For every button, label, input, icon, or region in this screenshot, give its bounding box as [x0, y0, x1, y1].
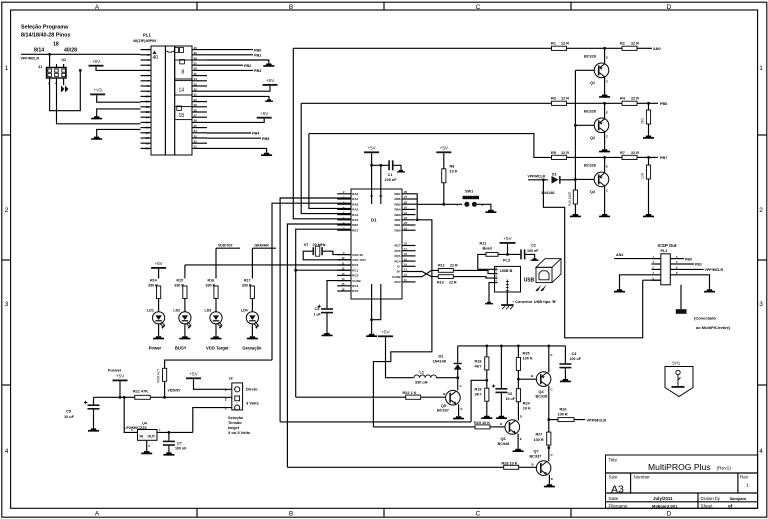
- svg-text:26: 26: [194, 119, 198, 123]
- wire Q5 base from R22: [420, 396, 445, 398]
- svg-text:LD3: LD3: [205, 309, 212, 313]
- svg-text:VDD Target: VDD Target: [206, 346, 229, 351]
- ic D1 right pin 22 (RB1) stub: [402, 224, 416, 226]
- ground LD1: [153, 336, 164, 339]
- supply flag +5V above D1: [364, 146, 379, 154]
- diode D1 1N4148: [552, 176, 561, 184]
- wire MCU VSS pins to ground: [371, 299, 373, 320]
- svg-text:+5V: +5V: [440, 146, 449, 151]
- junction dot R20 bottom: [163, 396, 166, 399]
- transistor Q3 (PNP): [604, 157, 606, 172]
- ground R15: [570, 214, 581, 217]
- svg-text:AN4: AN4: [616, 253, 623, 257]
- connector PL1 left pin 16 stub: [141, 127, 152, 129]
- svg-text:3 Volts: 3 Volts: [246, 401, 260, 406]
- wire PL2 pin4 to PB1: [680, 263, 695, 265]
- junction dot J1 return on +5V wire: [79, 69, 82, 72]
- svg-text:VPP/MCLR: VPP/MCLR: [587, 418, 607, 422]
- svg-text:2K2: 2K2: [641, 118, 645, 124]
- svg-text:R27: R27: [536, 433, 543, 437]
- wire PL1 pin23 to PB5: [207, 137, 261, 139]
- svg-text:R25: R25: [523, 352, 530, 356]
- wire Q2 base: [575, 124, 594, 126]
- title block outline: [606, 455, 758, 508]
- svg-text:3: 3: [225, 406, 227, 410]
- wire rail3 horizontal: [309, 134, 552, 158]
- svg-text:E: E: [551, 477, 553, 481]
- svg-text:10 K: 10 K: [450, 170, 458, 174]
- svg-text:RE1: RE1: [352, 228, 358, 232]
- regulator U4 body: [138, 430, 158, 441]
- ground LD4: [247, 336, 258, 339]
- connector J2 pin1 circle: [235, 387, 240, 392]
- svg-text:330 uH: 330 uH: [415, 381, 428, 385]
- wire D+ cross from MCU: [416, 270, 439, 276]
- svg-text:+5V: +5V: [92, 59, 101, 64]
- wire Q7 base from R28: [519, 466, 537, 468]
- wire +5V to J2 pin1: [194, 379, 232, 389]
- svg-text:C5: C5: [66, 410, 71, 414]
- wire MCU pin to vertical x295 (VPP drive): [296, 269, 351, 271]
- ic D1 right pin 26 (RB5) stub: [402, 203, 416, 205]
- connector PL2 left pin 7 stub: [652, 274, 661, 276]
- wire C7 to ground: [168, 446, 170, 453]
- connector PL1 left pin 17 stub: [141, 132, 152, 134]
- ic D1 right pin 12 (VUSB) stub: [402, 276, 416, 278]
- border column ticks bottom: [196, 508, 198, 517]
- connector PL1 sub-box 8: [175, 60, 192, 79]
- svg-text:100 uF: 100 uF: [570, 357, 582, 361]
- ic D1 right pin 15 (RC4) stub: [402, 260, 416, 262]
- svg-text:R5: R5: [551, 151, 556, 155]
- svg-text:100 nF: 100 nF: [385, 178, 398, 182]
- connector PL1 arrow and 40 label: [153, 51, 157, 55]
- connector PL3 USB B body: [495, 266, 521, 292]
- ic D1 right pin 14 (D-) stub: [402, 265, 416, 267]
- wire LD4 to ground: [251, 324, 253, 336]
- wire R27 to Q7 collector: [548, 445, 550, 461]
- svg-text:33: 33: [194, 82, 198, 86]
- net label GRAVAR with wire: [251, 248, 253, 278]
- svg-text:OUT: OUT: [148, 435, 156, 439]
- connector PL2 right pin 4 stub: [670, 263, 679, 265]
- wire PL2 pin7 to ground: [620, 275, 652, 290]
- svg-text:+5V: +5V: [116, 374, 125, 379]
- svg-text:PB7: PB7: [660, 156, 667, 160]
- svg-text:PB2: PB2: [244, 64, 251, 68]
- connector PL1 right pin 34 stub: [192, 80, 207, 82]
- wire regulator GND pin: [146, 440, 148, 451]
- ic D1 left pin 14 (RC2) stub: [337, 274, 351, 276]
- border row ticks left: [2, 134, 11, 136]
- ground C1 small: [397, 170, 405, 173]
- svg-text:PB1: PB1: [695, 263, 702, 267]
- ground Q7: [544, 484, 555, 487]
- svg-text:BC337: BC337: [530, 454, 542, 458]
- wire PL2 bottom pin to jumper link: [680, 285, 682, 309]
- ic D1 left pin 6 (RA4) stub: [337, 214, 351, 216]
- svg-text:RB2: RB2: [394, 218, 400, 222]
- title block cell dividers: [630, 473, 632, 493]
- svg-text:(Rev1): (Rev1): [717, 466, 732, 472]
- connector J2 pin2 square: [235, 396, 240, 401]
- svg-text:R26: R26: [560, 408, 567, 412]
- led LD3: [210, 312, 223, 329]
- junction dot Q7 collector: [547, 446, 550, 449]
- wire R16 to LD3: [215, 299, 217, 312]
- wire R6 to ground: [648, 179, 650, 214]
- connector PL1 left pin 3 stub: [141, 59, 152, 61]
- wire R17 to LD4: [251, 299, 253, 312]
- ic D1 left pin 2 (RA0) stub: [337, 193, 351, 195]
- wire rail2 vertical to MCU RA1: [301, 103, 351, 213]
- resistor R25 100K vertical: [517, 346, 519, 357]
- connector PL1 left pin 19 stub: [141, 142, 152, 144]
- svg-text:BUSY: BUSY: [175, 346, 187, 351]
- connector J2 pin3 circle: [235, 405, 240, 410]
- connector PL1 left pin 20 stub: [141, 147, 152, 149]
- svg-text:AN0: AN0: [653, 47, 661, 51]
- capacitor C1 100nF: [388, 160, 393, 170]
- connector PL1 right pin 36 stub: [192, 69, 207, 71]
- svg-text:R1: R1: [551, 42, 556, 46]
- wire J1 pin5 stub up: [63, 64, 65, 68]
- wire Q4 base: [518, 378, 536, 380]
- svg-text:USB B: USB B: [500, 268, 513, 273]
- svg-text:10K: 10K: [641, 172, 645, 179]
- wire Q5 emitter to ground: [458, 404, 460, 416]
- connector PL1 left pin 4 stub: [141, 64, 152, 66]
- jumper link (solid): [676, 309, 687, 314]
- connector PL1 left pin 1 stub: [141, 49, 152, 51]
- connector PL1 right pin 40 stub: [192, 49, 207, 51]
- ic D1 right pin 27 (RB6) stub: [402, 198, 416, 200]
- svg-text:LD1: LD1: [147, 309, 154, 313]
- svg-text:10 uF: 10 uF: [64, 415, 75, 419]
- connector PL1 left pin 18 stub: [141, 137, 152, 139]
- svg-text:R17: R17: [244, 279, 251, 283]
- transistor Q2 (PNP): [604, 103, 606, 118]
- svg-text:U2: U2: [62, 58, 67, 62]
- resistor R13 22R: [438, 275, 453, 279]
- jumper J1 pad top 2: [55, 69, 59, 72]
- ground PL3 shield hatched: [501, 304, 513, 309]
- ground PL2 left: [614, 289, 625, 292]
- svg-text:21: 21: [194, 145, 198, 149]
- svg-text:12 R: 12 R: [561, 151, 569, 155]
- ground LD3: [211, 336, 222, 339]
- svg-text:BC328: BC328: [536, 395, 548, 399]
- connector PL1 inner partition lines: [164, 46, 166, 155]
- wire J1 pin6 down: [63, 78, 65, 85]
- wire VPP/MCLR to PL1: [21, 53, 141, 55]
- svg-text:+5V: +5V: [154, 261, 163, 266]
- wire +5V fuse to rail: [119, 381, 121, 397]
- svg-text:2: 2: [759, 207, 763, 214]
- svg-text:+5V: +5V: [260, 111, 269, 116]
- svg-text:18: 18: [53, 42, 59, 48]
- wire Q2 collector to ground: [604, 132, 606, 149]
- ground PL2 right: [704, 289, 715, 292]
- svg-text:R11: R11: [480, 242, 487, 246]
- ic D1 left pin 5 (RA3) stub: [337, 208, 351, 210]
- svg-text:USB: USB: [524, 278, 535, 284]
- svg-text:R16: R16: [208, 279, 215, 283]
- wire R15 to LD2: [184, 299, 186, 312]
- wire PL1 pin40 to PB0: [207, 49, 253, 51]
- svg-text:29: 29: [194, 103, 198, 107]
- resistor R4 22 R: [622, 101, 637, 105]
- ground R19: [481, 416, 492, 419]
- connector PL2 left pin 1 stub: [652, 258, 661, 260]
- wire R12 to PL3 pin2: [453, 270, 494, 273]
- junction dot rail 1 emitter: [603, 47, 606, 50]
- ic D1 left pin 13 (RC1) stub: [337, 269, 351, 271]
- capacitor C3 electrolytic: [318, 305, 334, 314]
- svg-text:D: D: [667, 510, 672, 517]
- ground PL3 pin4 small: [485, 302, 493, 305]
- junction dot rail R18: [485, 344, 488, 347]
- svg-text:100 R: 100 R: [558, 412, 568, 416]
- svg-text:Gravação: Gravação: [242, 346, 262, 351]
- wire R28 from MCU: [287, 466, 503, 468]
- svg-text:+5V: +5V: [266, 78, 275, 83]
- svg-text:RB7: RB7: [394, 192, 400, 196]
- resistor R27 100R vertical: [547, 432, 551, 445]
- usb 3d icon: [536, 259, 561, 283]
- svg-text:40/28: 40/28: [64, 48, 77, 54]
- wire D1 to Q3 base: [561, 179, 576, 181]
- transistor Q6 (NPN): [505, 420, 520, 435]
- ic D1 VDD pin stubs top: [371, 189, 373, 204]
- svg-text:Seleção Programa: Seleção Programa: [21, 25, 69, 31]
- junction dot rail R25: [517, 344, 520, 347]
- resistor R24 10K vertical: [516, 389, 520, 402]
- svg-text:C: C: [476, 510, 481, 517]
- wire C5 to ground: [93, 410, 95, 429]
- wire Q4 collector down: [548, 386, 550, 432]
- svg-text:4: 4: [759, 448, 763, 455]
- svg-text:40: 40: [194, 46, 198, 50]
- svg-text:RB0: RB0: [394, 228, 400, 232]
- junction dot C7 node: [167, 431, 170, 434]
- svg-text:3: 3: [5, 301, 9, 308]
- ground C4: [560, 379, 571, 382]
- svg-text:of: of: [728, 503, 733, 508]
- wire J1 pin1 up: [49, 54, 51, 67]
- wire C1 to ground: [394, 165, 402, 170]
- wire PL1 pin31 to ground: [207, 96, 269, 99]
- svg-text:PB0: PB0: [254, 48, 261, 52]
- diode marks below J1: [61, 86, 69, 93]
- svg-text:RB6: RB6: [394, 197, 400, 201]
- svg-text:D: D: [667, 4, 672, 11]
- wire MCLR from MCU to SW1: [416, 203, 463, 205]
- wire R20 top to x272 vertical: [165, 360, 272, 368]
- ground PL1 pin21: [261, 153, 272, 156]
- svg-text:RC5: RC5: [352, 289, 358, 293]
- resistor R7 22 R: [622, 155, 637, 159]
- wire crystal left leg: [303, 251, 337, 260]
- svg-text:20: 20: [146, 147, 150, 151]
- svg-text:RC7: RC7: [394, 244, 400, 248]
- svg-text:A: A: [95, 4, 100, 11]
- connector PL1 sub-box 18: [175, 107, 192, 120]
- svg-text:100 R: 100 R: [534, 438, 544, 442]
- svg-text:BC328: BC328: [584, 164, 596, 168]
- svg-text:37: 37: [194, 62, 198, 66]
- supply flag +5V LED1: [151, 261, 166, 269]
- svg-text:VDD/TGT: VDD/TGT: [218, 244, 234, 248]
- wire R23 to Q6 base: [490, 426, 506, 428]
- svg-text:RB1: RB1: [394, 223, 400, 227]
- wire R18 to divider node: [486, 370, 488, 388]
- svg-text:PL2: PL2: [661, 249, 668, 253]
- svg-text:RA3: RA3: [352, 208, 358, 212]
- transistor Q5 (NPN): [446, 390, 461, 405]
- wire Q3 collector to ground: [604, 186, 606, 214]
- ic D1 right pin 16 (RC5) stub: [402, 255, 416, 257]
- junction dot rail C6: [500, 344, 503, 347]
- svg-text:E: E: [551, 353, 553, 357]
- wire Q6-drive right segment: [373, 220, 432, 427]
- wire crystal OSC loop: [337, 259, 351, 261]
- svg-text:+5V: +5V: [381, 330, 390, 335]
- wire +5V to PL1 pin5: [96, 67, 141, 71]
- ic D1 left pin 17 (RC5) stub: [337, 290, 351, 292]
- svg-text:18: 18: [179, 113, 185, 119]
- svg-text:22 R: 22 R: [631, 42, 639, 46]
- connector PL1 left pin 15 stub: [141, 121, 152, 123]
- svg-text:38: 38: [194, 56, 198, 60]
- svg-text:40(ZIF)40PIN: 40(ZIF)40PIN: [133, 39, 156, 43]
- wire Q7 emitter to ground: [548, 475, 550, 485]
- border column ticks top: [196, 2, 198, 10]
- ic D1 right pin 17 (RC6) stub: [402, 250, 416, 252]
- connector PL2 left pin 5 stub: [652, 268, 661, 270]
- svg-text:J2: J2: [229, 377, 233, 381]
- svg-text:3: 3: [759, 301, 763, 308]
- connector PL1 left pin 8 stub: [141, 85, 152, 87]
- wire rail1 horizontal: [293, 47, 551, 49]
- wire L1 to boost node: [436, 377, 457, 379]
- resistor R1 12 R: [552, 46, 567, 50]
- svg-text:D-: D-: [397, 265, 400, 269]
- svg-text:R23 10 K: R23 10 K: [474, 421, 490, 425]
- connector PL1 left pin 11 stub: [141, 101, 152, 103]
- svg-text:SW1: SW1: [465, 190, 473, 194]
- svg-text:1 uF: 1 uF: [314, 313, 322, 317]
- svg-text:39: 39: [194, 51, 198, 55]
- svg-text:24: 24: [194, 129, 198, 133]
- svg-text:MsBoard.S01: MsBoard.S01: [652, 503, 678, 508]
- connector PL1 right pin 33 stub: [192, 85, 207, 87]
- switch SW1 (reset pushbutton): [463, 196, 480, 207]
- svg-text:R22 1 K: R22 1 K: [403, 391, 417, 395]
- svg-text:PB4: PB4: [252, 132, 260, 136]
- wire PL2 pin2 to PB0: [680, 258, 685, 260]
- ground C5: [88, 428, 99, 431]
- ic D1 right pin 11 (RC0) stub: [402, 281, 416, 283]
- junction dot VPP wire: [48, 53, 51, 56]
- ic D1 right pin 21 (RB0) stub: [402, 229, 416, 231]
- ground SW1: [485, 210, 496, 213]
- svg-text:ao MultiPIC/retire): ao MultiPIC/retire): [696, 325, 731, 330]
- connector PL3 shield pin ladder: [506, 280, 509, 293]
- wire +V3 to PL1 pin11: [97, 95, 141, 102]
- svg-text:Q2: Q2: [590, 136, 595, 140]
- net label VDD/TGT with wire: [215, 248, 217, 278]
- wire regulator IN from rail: [123, 396, 126, 399]
- supply flag +5V above R8: [436, 146, 451, 154]
- wire PL1 pin39 to PB1: [207, 54, 253, 56]
- svg-text:R15: R15: [176, 279, 183, 283]
- capacitor C4 100uF: [559, 363, 571, 368]
- svg-text:RE0: RE0: [352, 223, 358, 227]
- svg-text:R8: R8: [450, 165, 455, 169]
- svg-text:14: 14: [146, 115, 150, 119]
- connector PL1 right pin 28 stub: [192, 111, 207, 113]
- svg-text:8/14/18/40-28 Pinos: 8/14/18/40-28 Pinos: [21, 33, 70, 39]
- resistor R19 3K7 vertical: [485, 388, 489, 401]
- svg-text:8: 8: [182, 70, 185, 76]
- svg-text:12 R: 12 R: [561, 42, 569, 46]
- wire J1 pin2 down and up to +5V net: [50, 70, 81, 110]
- svg-text:RA1: RA1: [352, 197, 358, 201]
- svg-text:OSC IN: OSC IN: [352, 253, 362, 257]
- svg-text:R14: R14: [150, 279, 157, 283]
- wire rail3 vertical to MCU RA2: [309, 134, 351, 209]
- ground C3: [322, 333, 333, 336]
- connector PL1 right pin 22 stub: [192, 142, 207, 144]
- svg-text:VPP/MCLR: VPP/MCLR: [705, 268, 724, 272]
- connector PL1 left pin 14 stub: [141, 116, 152, 118]
- svg-text:VPP/MCLR: VPP/MCLR: [528, 175, 546, 179]
- resistor R3 12 R: [552, 101, 567, 105]
- ic D1 left pin 16 (RC4) stub: [337, 285, 351, 287]
- connector PL1 top notch squares: [175, 48, 179, 53]
- wire C3 to ground: [326, 313, 328, 333]
- junction dot rail 3 right: [647, 156, 650, 159]
- transistor Q1 (PNP): [604, 48, 606, 63]
- ground regulator: [141, 451, 152, 454]
- logo shield SH1: [665, 361, 693, 397]
- connector PL1 right pin 31 stub: [192, 95, 207, 97]
- jumper J1 pad bottom 2: [55, 73, 59, 76]
- wire MCU pin229 to vertical x295: [296, 229, 351, 397]
- svg-text:Q5: Q5: [441, 404, 446, 408]
- transistor Q5 BC337 collector wire: [457, 378, 459, 391]
- svg-text:C1: C1: [388, 173, 393, 177]
- svg-text:32: 32: [194, 88, 198, 92]
- diode D2 1N4148 vertical: [457, 369, 459, 378]
- svg-text:RA2: RA2: [352, 202, 358, 206]
- svg-text:15: 15: [146, 121, 150, 125]
- svg-text:Drawn by: Drawn by: [701, 496, 721, 501]
- wire PL1 pin21 to ground: [207, 148, 267, 152]
- svg-text:A: A: [95, 510, 100, 517]
- svg-text:RC1: RC1: [352, 268, 358, 272]
- svg-text:MultiPROG Plus: MultiPROG Plus: [648, 462, 711, 472]
- junction dot rail 2 right: [647, 102, 650, 105]
- connector PL1 right pin 26 stub: [192, 121, 207, 123]
- junction dot RB join: [416, 218, 419, 221]
- connector PL1 right pin 27 stub: [192, 116, 207, 118]
- resistor R6 10K vertical: [648, 157, 650, 165]
- connector PL1 left pin 2 stub: [141, 54, 152, 56]
- svg-text:VPP/MCLR: VPP/MCLR: [21, 57, 40, 61]
- ic D1 left pin 11 (OSC OUT) stub: [337, 259, 351, 261]
